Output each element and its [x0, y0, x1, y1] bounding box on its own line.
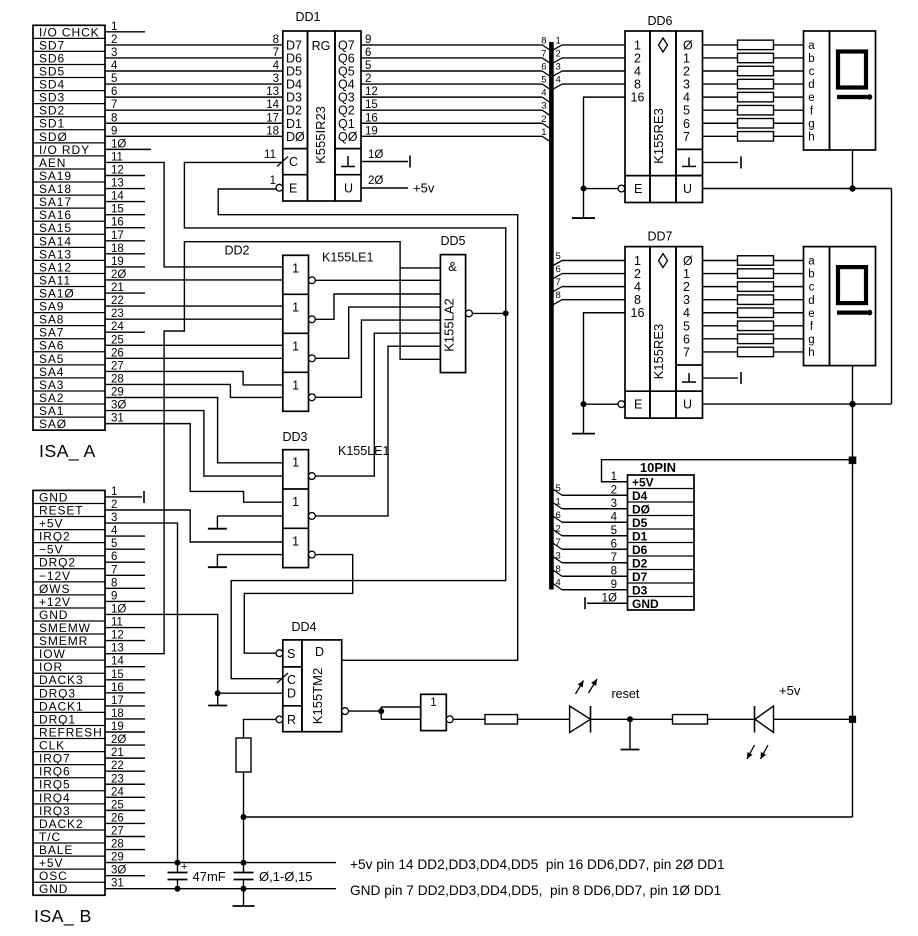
bus exit diagonal DD7 7	[553, 287, 562, 292]
svg-text:5: 5	[541, 75, 546, 86]
svg-text:1: 1	[270, 175, 276, 187]
svg-text:3: 3	[683, 78, 690, 92]
svg-text:+: +	[181, 861, 187, 873]
wire stub ISA_B pin 23	[105, 783, 145, 785]
wire ISA_A pin 23 to DD2	[105, 318, 283, 320]
indicator HG1 digit glyph	[838, 52, 866, 88]
svg-text:g: g	[808, 118, 814, 130]
NOR gates DD2 K155LE1	[283, 255, 309, 411]
svg-text:4: 4	[611, 511, 618, 523]
svg-text:SA11: SA11	[39, 273, 71, 287]
wire +5v rail ISA_B pin 29	[105, 862, 336, 864]
wire GND rail ISA_B pin 31	[105, 888, 336, 890]
wire SA0 ISA_A pin 31 to DD3 g2	[105, 424, 283, 503]
svg-text:26: 26	[111, 812, 124, 824]
svg-text:BALE: BALE	[39, 843, 73, 857]
wire DD6 output 0 to resistor	[703, 44, 738, 46]
wire SD7 ISA_A pin 2 to DD1	[105, 44, 283, 46]
svg-text:8: 8	[111, 112, 117, 124]
wire stub ISA_A pin 18	[105, 253, 145, 255]
svg-text:9: 9	[111, 125, 117, 137]
svg-text:15: 15	[365, 99, 378, 111]
svg-text:1Ø: 1Ø	[111, 603, 126, 615]
DD3 gate 3 output bubble	[309, 551, 316, 558]
svg-text:SA8: SA8	[39, 313, 64, 327]
svg-text:GND: GND	[39, 882, 68, 896]
resistor R15	[738, 295, 774, 305]
wire stub ISA_B pin 7	[105, 574, 145, 576]
wire DD6 output 2 to resistor	[703, 70, 738, 72]
svg-text:h: h	[808, 347, 814, 359]
svg-text:IRQ5: IRQ5	[39, 778, 71, 792]
svg-text:DD7: DD7	[647, 230, 672, 244]
bus exit diagonal DD7 8	[553, 300, 562, 305]
wire resistor to HG1 e	[774, 96, 804, 98]
wire bus to DD7 input 7	[562, 286, 625, 288]
svg-text:GND pin 7 DD2,DD3,DD4,DD5, pi: GND pin 7 DD2,DD3,DD4,DD5, pin 8 DD6,DD7…	[350, 883, 721, 898]
wire resistor to HG1 g	[774, 122, 804, 124]
wire stub ISA_A pin 21	[105, 292, 145, 294]
wire +5v rail vertical bottom	[852, 719, 854, 817]
svg-text:11: 11	[264, 149, 276, 161]
svg-text:DØ: DØ	[632, 503, 650, 517]
resistor R16	[738, 308, 774, 318]
wire node C to DD4 C	[231, 313, 506, 678]
ground DD3 g3 input 2	[217, 554, 282, 556]
svg-text:15: 15	[111, 669, 124, 681]
wire resistor to HG1 h	[774, 135, 804, 137]
wire stub ISA_B pin 21	[105, 757, 145, 759]
connector ISA_B	[33, 490, 105, 895]
wire DD4 D to ground net	[218, 692, 283, 694]
svg-text:K155RE3: K155RE3	[651, 324, 666, 380]
bus exit diagonal DD6 4	[553, 84, 562, 89]
wire stub ISA_A pin 12	[105, 174, 145, 176]
svg-text:DACK3: DACK3	[39, 673, 84, 687]
ground DD7	[583, 404, 585, 434]
svg-text:18: 18	[111, 243, 124, 255]
wire node C riser	[184, 162, 505, 313]
svg-text:d: d	[808, 79, 814, 91]
svg-text:c: c	[809, 282, 815, 294]
wire bus to DD6 input 3	[562, 70, 625, 72]
svg-text:3: 3	[541, 101, 546, 112]
wire DD2 g1 out to DD5 input 2	[315, 279, 440, 281]
wire gate out to R2	[453, 718, 485, 720]
bus exit diagonal DD6 1	[553, 45, 562, 50]
svg-text:3Ø: 3Ø	[111, 865, 126, 877]
svg-text:2: 2	[556, 523, 561, 534]
svg-text:3: 3	[683, 293, 690, 307]
svg-text:4: 4	[634, 280, 641, 294]
svg-text:DD6: DD6	[647, 14, 672, 28]
svg-text:D5: D5	[632, 516, 648, 530]
svg-text:IRQ7: IRQ7	[39, 752, 71, 766]
junction HG1 common	[849, 185, 855, 191]
svg-text:DD3: DD3	[282, 430, 307, 444]
svg-text:5: 5	[556, 483, 561, 494]
svg-text:23: 23	[111, 308, 124, 320]
svg-text:SD5: SD5	[39, 64, 65, 78]
svg-text:Q4: Q4	[338, 78, 355, 92]
resistor R12	[738, 256, 774, 266]
svg-text:C: C	[289, 155, 298, 169]
svg-text:3: 3	[111, 512, 117, 524]
svg-text:Q3: Q3	[338, 91, 355, 105]
wire stub ISA_A pin 10	[105, 148, 151, 150]
svg-text:2: 2	[611, 484, 617, 496]
DD3 gate 2 output bubble	[309, 513, 316, 520]
svg-text:1: 1	[683, 51, 690, 65]
svg-text:1: 1	[111, 21, 117, 33]
svg-text:+5v pin 14 DD2,DD3,DD4,DD5 pi: +5v pin 14 DD2,DD3,DD4,DD5 pin 16 DD6,DD…	[350, 857, 725, 872]
junction +5v link	[241, 814, 247, 820]
svg-text:QØ: QØ	[338, 130, 358, 144]
svg-text:1: 1	[556, 496, 561, 507]
svg-text:SA13: SA13	[39, 247, 72, 261]
svg-text:g: g	[808, 334, 814, 346]
svg-text:5: 5	[611, 525, 617, 537]
wire gate input pair	[380, 707, 382, 719]
svg-text:Ø: Ø	[683, 254, 693, 268]
wire resistor to HG1 d	[774, 83, 804, 85]
DD2 gate 3 output bubble	[309, 355, 316, 362]
wire bus to DD7 input 8	[562, 299, 625, 301]
svg-text:K555IR23: K555IR23	[313, 106, 328, 164]
DD7 ROM symbol	[659, 254, 668, 268]
wire stub ISA_B pin 4	[105, 535, 145, 537]
wire stub ISA_B pin 27	[105, 835, 145, 837]
resistor R7	[738, 79, 774, 89]
svg-text:1: 1	[292, 339, 299, 353]
svg-text:19: 19	[111, 256, 124, 268]
svg-text:12: 12	[111, 630, 124, 642]
wire stub ISA_A pin 14	[105, 201, 145, 203]
wire DD6 output 1 to resistor	[703, 57, 738, 59]
svg-text:4: 4	[683, 91, 690, 105]
svg-text:9: 9	[111, 590, 117, 602]
svg-text:1: 1	[611, 471, 617, 483]
svg-text:8: 8	[273, 34, 279, 46]
svg-text:47mF: 47mF	[193, 869, 226, 884]
svg-text:1: 1	[292, 378, 299, 392]
wire stub ISA_B pin 16	[105, 692, 145, 694]
svg-text:12: 12	[111, 164, 124, 176]
svg-text:8: 8	[111, 577, 117, 589]
svg-text:SDØ: SDØ	[39, 130, 68, 144]
DD6 ground symbol	[682, 165, 696, 167]
flip-flop DD4 K155TM2	[283, 640, 302, 732]
svg-text:D4: D4	[632, 489, 648, 503]
LED VD2 power indicator	[755, 706, 774, 733]
svg-text:I/O RDY: I/O RDY	[39, 143, 90, 157]
svg-text:8: 8	[556, 290, 561, 301]
junction 10PIN +5v	[849, 457, 857, 465]
wire R3 to LED VD2	[708, 718, 755, 720]
svg-text:D1: D1	[286, 117, 302, 131]
svg-text:29: 29	[111, 387, 124, 399]
svg-text:2: 2	[111, 34, 117, 46]
wire DD1 Q0 to bus	[361, 135, 542, 137]
wire DD3 g1 out to DD5 input 6	[315, 333, 440, 476]
svg-text:U: U	[344, 182, 353, 196]
svg-text:31: 31	[111, 413, 124, 425]
svg-text:8: 8	[634, 78, 641, 92]
capacitor C2 0,1-0,15	[243, 863, 245, 873]
wire stub ISA_B pin 26	[105, 822, 145, 824]
wire DD6 output 7 to resistor	[703, 135, 738, 137]
wire bus to DD7 input 5	[562, 260, 625, 262]
wire DD2 g3 out to DD5 input 4	[315, 307, 440, 358]
svg-text:1: 1	[634, 254, 641, 268]
wire DD1 Q3 to bus	[361, 96, 542, 98]
LED VD1 arrows	[576, 681, 584, 695]
wire SA2 ISA_A pin 29 to DD3 g1	[105, 398, 283, 463]
svg-text:SA17: SA17	[39, 195, 72, 209]
svg-text:−5V: −5V	[39, 543, 63, 557]
NOR gates DD3 K155LE1	[283, 450, 309, 568]
svg-text:E: E	[634, 398, 642, 412]
wire stub ISA_B pin 22	[105, 770, 145, 772]
junction C1 +5v	[175, 860, 181, 866]
svg-text:d: d	[808, 295, 814, 307]
svg-text:Q5: Q5	[338, 65, 355, 79]
svg-text:SA1: SA1	[39, 404, 64, 418]
svg-text:6: 6	[111, 551, 117, 563]
svg-text:11: 11	[111, 151, 123, 163]
svg-text:19: 19	[111, 721, 124, 733]
wire IOW ISA_B pin 13 to DD5	[105, 242, 400, 654]
svg-text:SA18: SA18	[39, 182, 72, 196]
svg-text:SD6: SD6	[39, 51, 65, 65]
svg-text:28: 28	[111, 839, 124, 851]
svg-text:D3: D3	[632, 584, 648, 598]
svg-text:6: 6	[365, 47, 371, 59]
svg-text:IRQ6: IRQ6	[39, 765, 71, 779]
svg-text:SA4: SA4	[39, 365, 64, 379]
bus exit diagonal 10PIN 2	[553, 530, 562, 536]
svg-text:7: 7	[541, 48, 546, 59]
svg-text:SA1Ø: SA1Ø	[39, 287, 75, 301]
svg-text:Q7: Q7	[338, 38, 355, 52]
bus entry D3 diagonal	[542, 97, 549, 102]
svg-text:6: 6	[111, 86, 117, 98]
svg-text:4: 4	[541, 88, 546, 99]
svg-text:9: 9	[611, 579, 617, 591]
svg-text:D3: D3	[286, 91, 302, 105]
svg-text:2: 2	[541, 114, 546, 125]
junction DD4 D ground	[215, 690, 221, 696]
svg-text:D7: D7	[632, 570, 648, 584]
indicator HG1 common wire	[852, 150, 854, 189]
svg-text:17: 17	[111, 230, 124, 242]
svg-text:13: 13	[111, 178, 124, 190]
resistor R4	[738, 40, 774, 50]
svg-text:SD2: SD2	[39, 104, 65, 118]
svg-text:6: 6	[556, 510, 561, 521]
svg-text:ISA_ B: ISA_ B	[34, 906, 92, 927]
svg-text:6: 6	[611, 538, 617, 550]
svg-text:7: 7	[273, 47, 279, 59]
junction +5v rail bottom	[849, 716, 856, 723]
svg-text:+5V: +5V	[39, 856, 63, 870]
svg-text:+5v: +5v	[779, 683, 801, 698]
wire DD7 output 6 to resistor	[703, 338, 738, 340]
7-segment indicator HG1	[804, 31, 830, 150]
svg-text:4: 4	[556, 75, 561, 86]
svg-text:K155LA2: K155LA2	[442, 298, 457, 352]
wire stub ISA_A pin 13	[105, 188, 145, 190]
wire SA3 ISA_A pin 28 to DD2 g4	[105, 384, 283, 397]
wire resistor to HG2 d	[774, 299, 804, 301]
svg-text:4: 4	[273, 60, 280, 72]
wire SA1 ISA_A pin 30 to DD3 g1	[105, 411, 283, 477]
svg-text:4: 4	[111, 60, 118, 72]
wire DD6 output 3 to resistor	[703, 83, 738, 85]
svg-text:5: 5	[111, 73, 117, 85]
svg-text:SA7: SA7	[39, 326, 64, 340]
PROM DD6 K155RE3	[625, 31, 650, 203]
svg-text:DD4: DD4	[291, 620, 316, 634]
wire GND ISA_B pin 10 to DD4 D	[105, 614, 218, 693]
svg-text:8: 8	[611, 565, 617, 577]
bus exit diagonal DD6 2	[553, 58, 562, 63]
wire resistor to HG2 h	[774, 351, 804, 353]
wire stub ISA_B pin 30	[105, 875, 145, 877]
wire DD1 Q1 to bus	[361, 122, 542, 124]
svg-text:DACK2: DACK2	[39, 817, 84, 831]
wire resistor to HG2 g	[774, 338, 804, 340]
svg-text:11: 11	[111, 617, 123, 629]
svg-text:18: 18	[266, 125, 279, 137]
svg-text:SD1: SD1	[39, 117, 65, 131]
resistor R8	[738, 92, 774, 102]
bus exit diagonal 10PIN 4	[553, 584, 562, 590]
svg-text:12: 12	[365, 86, 378, 98]
junction C1 gnd	[175, 886, 181, 892]
bus exit diagonal 10PIN 5	[553, 489, 562, 495]
wire IOW into DD5 input 1	[400, 267, 440, 269]
wire SD3 ISA_A pin 6 to DD1	[105, 96, 283, 98]
svg-text:7: 7	[683, 345, 690, 359]
bus exit diagonal 10PIN 7	[553, 543, 562, 549]
wire RESET ISA_B pin 2 to DD3 g3	[105, 510, 283, 542]
wire resistor to HG2 b	[774, 273, 804, 275]
svg-text:GND: GND	[39, 490, 68, 504]
wire DD4 R to pullup resistor	[244, 719, 277, 738]
LED VD1 reset indicator	[570, 706, 591, 733]
wire +5v vertical below HG2	[852, 404, 854, 460]
wire stub ISA_B pin 9	[105, 600, 145, 602]
wire stub ISA_B pin 28	[105, 849, 145, 851]
bus entry D0 diagonal	[542, 136, 549, 141]
svg-text:ØWS: ØWS	[39, 582, 70, 596]
wire resistor to HG1 f	[774, 109, 804, 111]
DD2 gate 4 output bubble	[309, 394, 316, 401]
svg-text:1: 1	[292, 534, 299, 548]
svg-text:SA14: SA14	[39, 234, 72, 248]
wire DD7 E to ground	[584, 403, 619, 405]
resistor R19	[738, 347, 774, 357]
svg-text:1: 1	[541, 127, 546, 138]
svg-text:+5V: +5V	[632, 476, 654, 490]
wire right +5v link vertical	[891, 189, 893, 405]
bus exit diagonal DD7 6	[553, 274, 562, 279]
wire bus to DD6 input 2	[562, 57, 625, 59]
svg-text:IOW: IOW	[39, 647, 66, 661]
ground DD3 g2 input 2	[217, 515, 282, 517]
resistor R1 pullup	[236, 738, 251, 772]
svg-text:SA19: SA19	[39, 169, 72, 183]
resistor R6	[738, 66, 774, 76]
svg-text:K155LE1: K155LE1	[338, 444, 389, 458]
wire bus to 10PIN pin 3	[562, 508, 628, 510]
svg-text:REFRESH: REFRESH	[39, 725, 103, 739]
bus exit diagonal 10PIN 6	[553, 516, 562, 522]
svg-text:IRQ2: IRQ2	[39, 530, 71, 544]
bus entry D6 diagonal	[542, 58, 549, 63]
wire stub ISA_B pin 14	[105, 666, 145, 668]
svg-text:21: 21	[111, 282, 124, 294]
wire ISA_A pin 22 to DD2	[105, 305, 283, 307]
svg-text:16: 16	[365, 112, 378, 124]
svg-text:16: 16	[631, 306, 645, 320]
svg-text:I/O CHCK: I/O CHCK	[39, 25, 100, 39]
ground DD6	[583, 189, 585, 219]
register DD1 K555IR23	[283, 31, 308, 201]
svg-text:a: a	[808, 40, 815, 52]
wire DD4 Q output to node E	[218, 189, 518, 660]
svg-text:SA9: SA9	[39, 300, 64, 314]
resistor R5	[738, 53, 774, 63]
wire IOW down to DD5 input 8	[400, 268, 440, 359]
wire stub ISA_B pin 17	[105, 705, 145, 707]
svg-text:14: 14	[111, 656, 124, 668]
DD7 ground symbol	[682, 381, 696, 383]
wire +5V ISA_B pin 3 down to filter caps	[105, 523, 178, 863]
wire +5v link to LED rail	[244, 816, 853, 818]
wire resistor to HG2 f	[774, 325, 804, 327]
svg-text:17: 17	[111, 695, 124, 707]
bus exit diagonal DD6 3	[553, 71, 562, 76]
svg-text:7: 7	[556, 537, 561, 548]
svg-text:SA16: SA16	[39, 208, 72, 222]
wire bus to DD6 input 1	[562, 44, 625, 46]
wire stub ISA_B pin 6	[105, 561, 145, 563]
svg-text:RESET: RESET	[39, 503, 84, 517]
svg-text:1: 1	[292, 456, 299, 470]
svg-text:1Ø: 1Ø	[368, 149, 383, 161]
wire DD5 output to node C	[472, 312, 505, 314]
wire DD7 output 7 to resistor	[703, 351, 738, 353]
svg-text:7: 7	[611, 552, 617, 564]
svg-text:DACK1: DACK1	[39, 699, 84, 713]
svg-text:2Ø: 2Ø	[368, 175, 383, 187]
resistor R13	[738, 269, 774, 279]
wire stub ISA_B pin 19	[105, 731, 145, 733]
svg-text:5: 5	[556, 251, 561, 262]
svg-text:16: 16	[111, 682, 124, 694]
svg-text:Q6: Q6	[338, 51, 355, 65]
svg-text:3: 3	[111, 47, 117, 59]
wire DD6 output 4 to resistor	[703, 96, 738, 98]
wire 10PIN pin10 GND with terminator	[587, 602, 628, 604]
indicator HG2 common wire	[852, 366, 854, 405]
svg-text:+12V: +12V	[39, 595, 71, 609]
svg-text:16: 16	[111, 217, 124, 229]
svg-text:e: e	[808, 308, 814, 320]
svg-text:14: 14	[266, 99, 279, 111]
